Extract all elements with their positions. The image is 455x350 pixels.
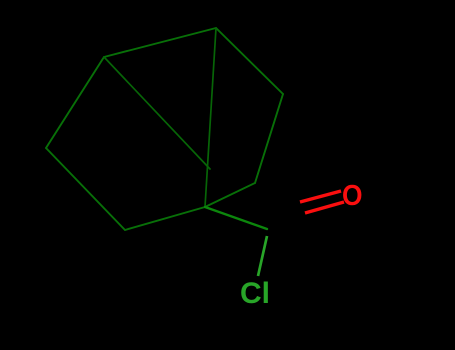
svg-text:O: O <box>342 179 363 211</box>
svg-text:Cl: Cl <box>240 277 270 310</box>
